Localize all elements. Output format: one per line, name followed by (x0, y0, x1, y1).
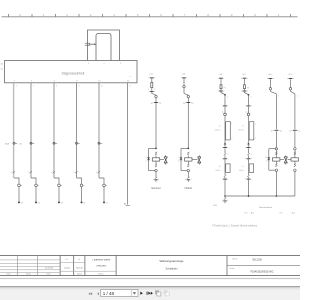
svg-text:12: 12 (129, 86, 131, 88)
svg-text:11.07.08: 11.07.08 (45, 268, 54, 270)
svg-text:Name: Name (77, 274, 82, 276)
svg-text:Wartungsanzeige: Wartungsanzeige (160, 259, 184, 263)
svg-text:31: 31 (83, 203, 85, 205)
svg-text:0402sw: 0402sw (215, 130, 222, 132)
svg-text:Ident.: Ident. (233, 257, 238, 260)
svg-text:Zentraleinheit: Zentraleinheit (259, 206, 273, 209)
svg-text:1: 1 (96, 172, 97, 174)
svg-text:10: 10 (101, 86, 103, 88)
svg-text:1: 1 (11, 172, 12, 174)
svg-text:8: 8 (79, 86, 80, 88)
svg-text:2: 2 (251, 154, 252, 156)
svg-text:Name: Name (26, 274, 31, 276)
svg-text:9012108: 9012108 (252, 259, 262, 262)
svg-text:1: 1 (278, 96, 279, 98)
svg-text:31: 31 (61, 203, 63, 205)
svg-text:31: 31 (106, 203, 108, 205)
svg-text:4: 4 (33, 86, 34, 88)
svg-text:1: 1 (251, 96, 252, 98)
svg-text:1: 1 (74, 172, 75, 174)
svg-text:2: 2 (146, 161, 147, 163)
svg-text:x: x (130, 76, 131, 78)
svg-text:2: 2 (178, 161, 179, 163)
svg-text:40: 40 (271, 130, 273, 132)
svg-text:1: 1 (28, 172, 29, 174)
svg-text:© Erstellt durch J. Schrank (S: © Erstellt durch J. Schrank (Schritt-erf… (212, 225, 257, 228)
svg-text:1: 1 (297, 96, 298, 98)
svg-text:Ein: Ein (280, 213, 283, 215)
svg-text:2: 2 (231, 138, 232, 140)
svg-text:Ein: Ein (245, 213, 248, 215)
svg-text:02: 02 (159, 103, 161, 105)
svg-text:Zeich.: Zeich. (230, 268, 236, 270)
svg-text:02: 02 (280, 130, 282, 132)
svg-text:31: 31 (21, 203, 23, 205)
svg-text:4x: 4x (219, 125, 221, 127)
svg-text:2: 2 (227, 154, 228, 156)
svg-text:4x: 4x (242, 166, 244, 168)
svg-text:0402sw: 0402sw (238, 130, 245, 132)
svg-text:Summer: Summer (151, 187, 161, 190)
svg-text:40: 40 (289, 130, 291, 132)
svg-text:40: 40 (183, 103, 185, 105)
svg-text:40: 40 (151, 103, 153, 105)
svg-text:3x: 3x (265, 157, 267, 159)
svg-text:F1040152/03/20 WC: F1040152/03/20 WC (250, 270, 273, 273)
svg-text:Forml.: Forml. (98, 273, 104, 276)
svg-text:Schaltplan: Schaltplan (165, 266, 178, 270)
svg-text:1: 1 (51, 172, 52, 174)
svg-text:02: 02 (299, 130, 301, 132)
svg-text:Aus: Aus (292, 212, 295, 215)
svg-text:Hubub: Hubub (185, 187, 193, 190)
svg-text:LIEBHERR WERK: LIEBHERR WERK (93, 260, 111, 262)
svg-text:6: 6 (56, 86, 57, 88)
svg-text:Aus: Aus (251, 212, 254, 215)
svg-text:4x: 4x (242, 125, 244, 127)
svg-text:2: 2 (255, 138, 256, 140)
svg-text:angele: angele (64, 268, 71, 270)
svg-text:OHB-KEN: OHB-KEN (96, 265, 106, 267)
svg-text:Date: Date (47, 273, 51, 276)
svg-text:02: 02 (192, 103, 194, 105)
svg-text:1: 1 (178, 157, 179, 159)
svg-text:0402w: 0402w (215, 170, 221, 172)
svg-text:1: 1 (255, 124, 256, 126)
svg-text:F1: F1 (224, 87, 226, 89)
svg-text:Sven.B: Sven.B (76, 268, 83, 270)
svg-text:Diagnoseeinheit: Diagnoseeinheit (62, 72, 85, 76)
svg-text:Date: Date (7, 273, 11, 276)
svg-text:th: th (78, 258, 80, 261)
svg-text:1: 1 (231, 124, 232, 126)
svg-text:1: 1 (227, 96, 228, 98)
svg-text:1 / 48: 1 / 48 (103, 291, 115, 296)
svg-text:Os.: Os. (65, 259, 68, 261)
svg-text:4x: 4x (219, 166, 221, 168)
svg-text:F1: F1 (247, 87, 249, 89)
svg-text:1: 1 (148, 89, 149, 91)
svg-text:2: 2 (266, 161, 267, 163)
svg-text:2: 2 (16, 86, 17, 88)
svg-text:31: 31 (38, 203, 40, 205)
svg-text:0402w: 0402w (239, 170, 245, 172)
svg-text:1: 1 (146, 157, 147, 159)
svg-text:2: 2 (154, 89, 155, 91)
